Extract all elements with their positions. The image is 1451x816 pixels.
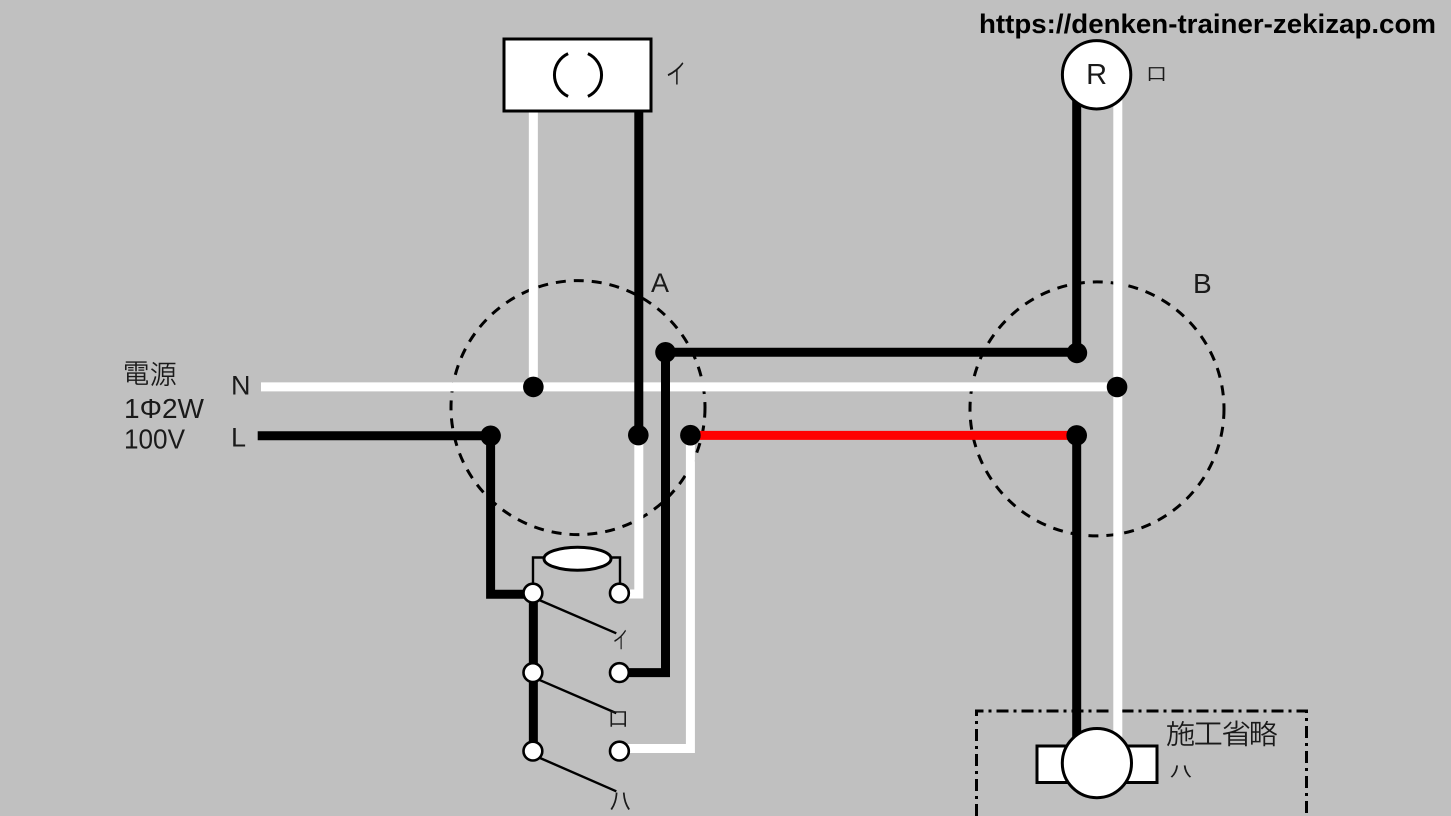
- junction box A (dashed circle): [451, 281, 705, 535]
- wire L black horizontal: [258, 431, 491, 440]
- lamp fixture イ box: [504, 39, 651, 111]
- junction dot D5: [1067, 343, 1088, 364]
- pilot lamp ellipse: [544, 547, 611, 570]
- junction dot D7: [1066, 425, 1087, 446]
- wire W4 white from red node to switch ハ: [627, 435, 690, 748]
- junction dot D2: [480, 426, 501, 447]
- omitted lamp rect: [1037, 746, 1157, 783]
- wire W2 white from lamp R down to omitted lamp: [1113, 98, 1122, 745]
- switch lever ロ: [538, 679, 616, 713]
- junction box B (dashed circle): [970, 282, 1224, 536]
- label 電源: [125, 361, 148, 384]
- wire W1 white from lamp イ to N: [529, 107, 538, 387]
- label ハ of switch: [611, 792, 630, 810]
- wire B3 black from L to switch strap: [491, 436, 525, 594]
- label イ of lamp box: [668, 62, 684, 84]
- svg-text:https://denken-trainer-zekizap: https://denken-trainer-zekizap.com: [979, 9, 1436, 39]
- junction dot D4: [655, 342, 676, 363]
- junction dot D1: [523, 377, 544, 398]
- wire red A to B: [690, 431, 1076, 440]
- svg-text:A: A: [651, 268, 669, 298]
- wire B4 black from node D4 to switch ロ: [627, 352, 666, 672]
- wire B1 black from lamp イ down: [634, 107, 643, 435]
- junction dot D8: [1107, 377, 1128, 398]
- wire B2 black from lamp R down: [1072, 95, 1081, 353]
- switch lever イ: [538, 600, 616, 634]
- wire W3 white from node D3 to switch イ: [628, 435, 639, 594]
- pilot lamp legs: [533, 558, 546, 584]
- svg-text:R: R: [1086, 59, 1107, 91]
- omitted lamp circle: [1062, 729, 1131, 798]
- wire B5 black horizontal A to B: [666, 348, 1077, 357]
- label 施工省略: [1167, 721, 1277, 747]
- label ロ of switch: [610, 711, 625, 727]
- junction dot D3: [628, 425, 649, 446]
- lamp R (round): [1062, 41, 1130, 109]
- junction dot D6: [680, 425, 701, 446]
- label ロ of lamp R: [1149, 67, 1164, 81]
- wire B6 black from red node to omitted lamp: [1072, 435, 1081, 745]
- svg-text:N: N: [231, 371, 251, 401]
- switch terminal circles: [524, 584, 543, 603]
- svg-text:B: B: [1193, 268, 1212, 299]
- label イ of switch: [614, 630, 626, 649]
- svg-text:1Φ2W: 1Φ2W: [124, 393, 205, 424]
- wire N white horizontal: [261, 382, 1118, 391]
- lamp fixture イ symbol arcs: [588, 54, 602, 97]
- svg-text:L: L: [231, 422, 246, 452]
- label ハ of omitted lamp: [1171, 765, 1192, 777]
- wire strap black between switch terminals: [529, 594, 538, 751]
- svg-text:100V: 100V: [124, 424, 185, 455]
- switch lever ハ: [538, 757, 616, 791]
- construction-omitted box (dash-dot border): [977, 711, 1307, 816]
